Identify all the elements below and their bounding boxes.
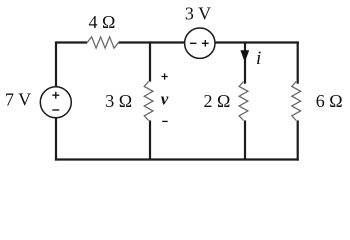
- resistor R1 4 ohm (horizontal zigzag): [87, 37, 118, 48]
- svg-text:3 V: 3 V: [185, 4, 211, 24]
- voltage source V2 3V (circle with - +): [185, 28, 215, 58]
- resistor R3 2 ohm (vertical zigzag): [239, 82, 248, 121]
- svg-text:2 Ω: 2 Ω: [204, 91, 231, 111]
- wire: top segment from 3V source to top-right corner: [215, 41, 299, 43]
- label + (polarity of v, top): [162, 73, 168, 79]
- wire: top segment from top-left corner to 4-ohm resistor: [56, 41, 87, 43]
- svg-text:i: i: [256, 48, 261, 69]
- wire: right rail bottom stub: [297, 120, 299, 160]
- wire: left rail lower (7V source down to bottom-left corner): [55, 118, 57, 161]
- wire: right rail top stub: [297, 41, 299, 83]
- voltage source V1 7V (circle with + over -): [40, 87, 71, 118]
- svg-text:7 V: 7 V: [5, 89, 31, 109]
- wire: 3-ohm branch bottom stub: [149, 120, 151, 159]
- wire: 2-ohm branch top stub: [244, 41, 246, 83]
- resistor R2 3 ohm (vertical zigzag): [144, 82, 153, 121]
- svg-text:4 Ω: 4 Ω: [89, 12, 116, 32]
- resistor R4 6 ohm (vertical zigzag): [292, 82, 301, 121]
- wire: 2-ohm branch bottom stub: [244, 120, 246, 159]
- wire: bottom rail: [55, 158, 299, 160]
- svg-text:6 Ω: 6 Ω: [316, 91, 343, 111]
- current arrow i (filled arrowhead pointing down): [240, 50, 249, 62]
- svg-text:v: v: [161, 90, 169, 109]
- wire: top segment from 4-ohm resistor to 3V source: [119, 41, 185, 43]
- wire: left rail upper (top-left corner down to 7V source): [55, 41, 57, 87]
- svg-text:3 Ω: 3 Ω: [105, 91, 132, 111]
- wire: 3-ohm branch top stub: [149, 41, 151, 81]
- label - (polarity of v, bottom): [162, 120, 168, 122]
